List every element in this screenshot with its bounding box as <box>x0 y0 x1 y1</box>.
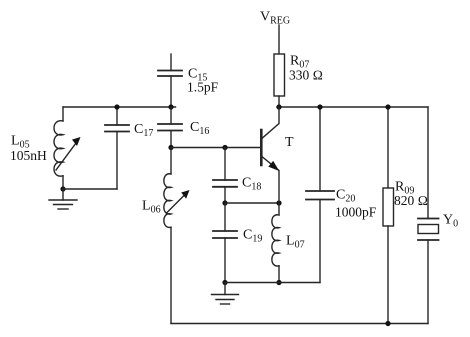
node at L05 bottom <box>60 186 65 191</box>
node C18/C19 junction <box>222 200 227 205</box>
svg-text:C17: C17 <box>134 122 153 139</box>
svg-text:1000pF: 1000pF <box>335 205 377 220</box>
inductor L06 <box>164 148 190 228</box>
ground under C19 <box>212 283 239 305</box>
node R09 top on bus <box>385 104 390 109</box>
wire C19/L07 bottom over to C20 <box>225 200 320 283</box>
node R09 bottom on bottom bus <box>385 321 390 326</box>
svg-text:105nH: 105nH <box>10 148 47 163</box>
wire L06 bottom down to bottom bus <box>170 227 172 323</box>
svg-text:C20: C20 <box>336 188 355 205</box>
node R07 bottom on bus <box>276 104 281 109</box>
wire junction to emitter <box>225 202 279 204</box>
resistor R09 <box>383 107 394 324</box>
wire base bus y=147.5 to transistor <box>171 147 261 149</box>
node C19 bottom <box>222 280 227 285</box>
wire left drop from top bus into L05 <box>62 107 64 121</box>
capacitor C15 with open stub <box>158 54 182 107</box>
node C17 top on bus <box>114 104 119 109</box>
wire VREG to R07 <box>278 25 280 54</box>
capacitor C16 <box>158 107 182 148</box>
capacitor C18 <box>213 148 237 204</box>
node C18 tap on base bus <box>222 145 227 150</box>
inductor L07 <box>272 203 279 283</box>
svg-text:820 Ω: 820 Ω <box>394 193 428 208</box>
svg-text:C18: C18 <box>242 176 261 193</box>
capacitor C19 <box>213 203 237 283</box>
wire top-right bus y=107 from x=277 to x=428 <box>277 106 428 108</box>
crystal Y0 <box>418 107 439 324</box>
wire R07 bottom to bus <box>278 96 280 107</box>
ground under L05 <box>49 189 77 209</box>
svg-text:1.5pF: 1.5pF <box>187 80 219 95</box>
svg-text:VREG: VREG <box>260 10 290 27</box>
capacitor C17 <box>105 107 129 132</box>
svg-text:L07: L07 <box>286 234 305 251</box>
node C15/C16 on bus <box>168 104 173 109</box>
wire top-left bus y=107 from x=63 to x=175 <box>63 106 176 108</box>
inductor L05 <box>54 121 81 189</box>
node emitter bottom <box>276 200 281 205</box>
wire from L05 bottom node to C17 bottom <box>63 132 117 190</box>
svg-text:330 Ω: 330 Ω <box>289 68 323 83</box>
node base-bus left <box>168 145 173 150</box>
svg-text:L06: L06 <box>142 199 161 216</box>
svg-text:C16: C16 <box>190 120 209 137</box>
wire bottom bus y=323.5 <box>171 323 428 325</box>
node C20 top on bus <box>317 104 322 109</box>
svg-text:T: T <box>285 135 294 150</box>
node L07 bottom <box>276 280 281 285</box>
transistor T <box>261 107 279 203</box>
svg-text:Y0: Y0 <box>443 213 458 230</box>
svg-text:C19: C19 <box>243 228 262 245</box>
resistor R07 <box>274 54 285 96</box>
capacitor C20 <box>306 107 334 200</box>
